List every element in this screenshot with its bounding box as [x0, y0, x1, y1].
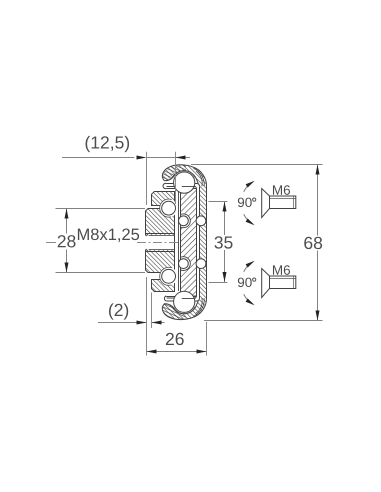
dimension 26: [146, 277, 148, 356]
ball A groove arc top: [173, 171, 195, 178]
M6 label (top): [273, 185, 290, 195]
dimension (2): [109, 303, 128, 319]
shield washer (bottom): [166, 296, 199, 301]
thread minor diameter lines: [149, 235, 175, 237]
ball A groove arc bottom: [173, 307, 195, 314]
M8 thread bore: [145, 236, 175, 250]
thread label M8x1,25: [78, 228, 139, 242]
90deg countersink angle (top): [244, 214, 253, 224]
roller raceway groove (lower): [196, 259, 206, 269]
90deg countersink angle (bottom): [244, 294, 253, 304]
bearing flange block (top, hatched): [152, 192, 175, 206]
roller corner edge arcs bottom: [194, 298, 205, 316]
sleeve groove clearance lower: [177, 257, 191, 271]
bore end: [174, 234, 176, 252]
roller outer ring with top and bottom hooks (hatched section): [162, 165, 206, 320]
shield cylindrical wall lines: [199, 187, 201, 299]
thread entry chamfers: [146, 233, 149, 236]
shield line over ball (bottom): [182, 298, 196, 300]
bearing flange block (bottom, hatched): [152, 280, 175, 292]
ball B bottom: [162, 269, 176, 283]
dimension 35: [209, 201, 228, 203]
ball A top: [174, 172, 195, 193]
roller corner edge arcs top: [194, 168, 205, 186]
dimension (12,5): [86, 136, 130, 152]
ball A bottom: [174, 291, 195, 312]
roller raceway groove (upper): [196, 216, 206, 226]
centerline (dash-dot): [46, 242, 56, 244]
thin bushing sleeve lines: [178, 192, 180, 291]
ball C top: [179, 216, 189, 226]
dimension 28: [56, 208, 146, 210]
M6 label (bottom): [273, 265, 290, 275]
M6 countersunk screw (top): [262, 189, 270, 218]
hook crescent steep hatch overlay: [158, 163, 186, 321]
ball C bottom: [179, 259, 189, 269]
M6 countersunk screw (bottom): [262, 269, 270, 298]
sleeve groove clearance upper: [177, 214, 191, 228]
ball B top: [162, 201, 176, 215]
threaded nut block M8 (hatched): [146, 209, 175, 273]
inner sleeve (hatched section): [181, 189, 197, 297]
dimension 68: [191, 164, 323, 166]
extension lines (12,5): [146, 152, 148, 205]
ball groove clearance upper left row: [160, 199, 178, 217]
ball groove clearance lower left row: [160, 267, 178, 285]
shield washer (top): [166, 183, 199, 188]
shield line over ball (top): [182, 186, 196, 188]
